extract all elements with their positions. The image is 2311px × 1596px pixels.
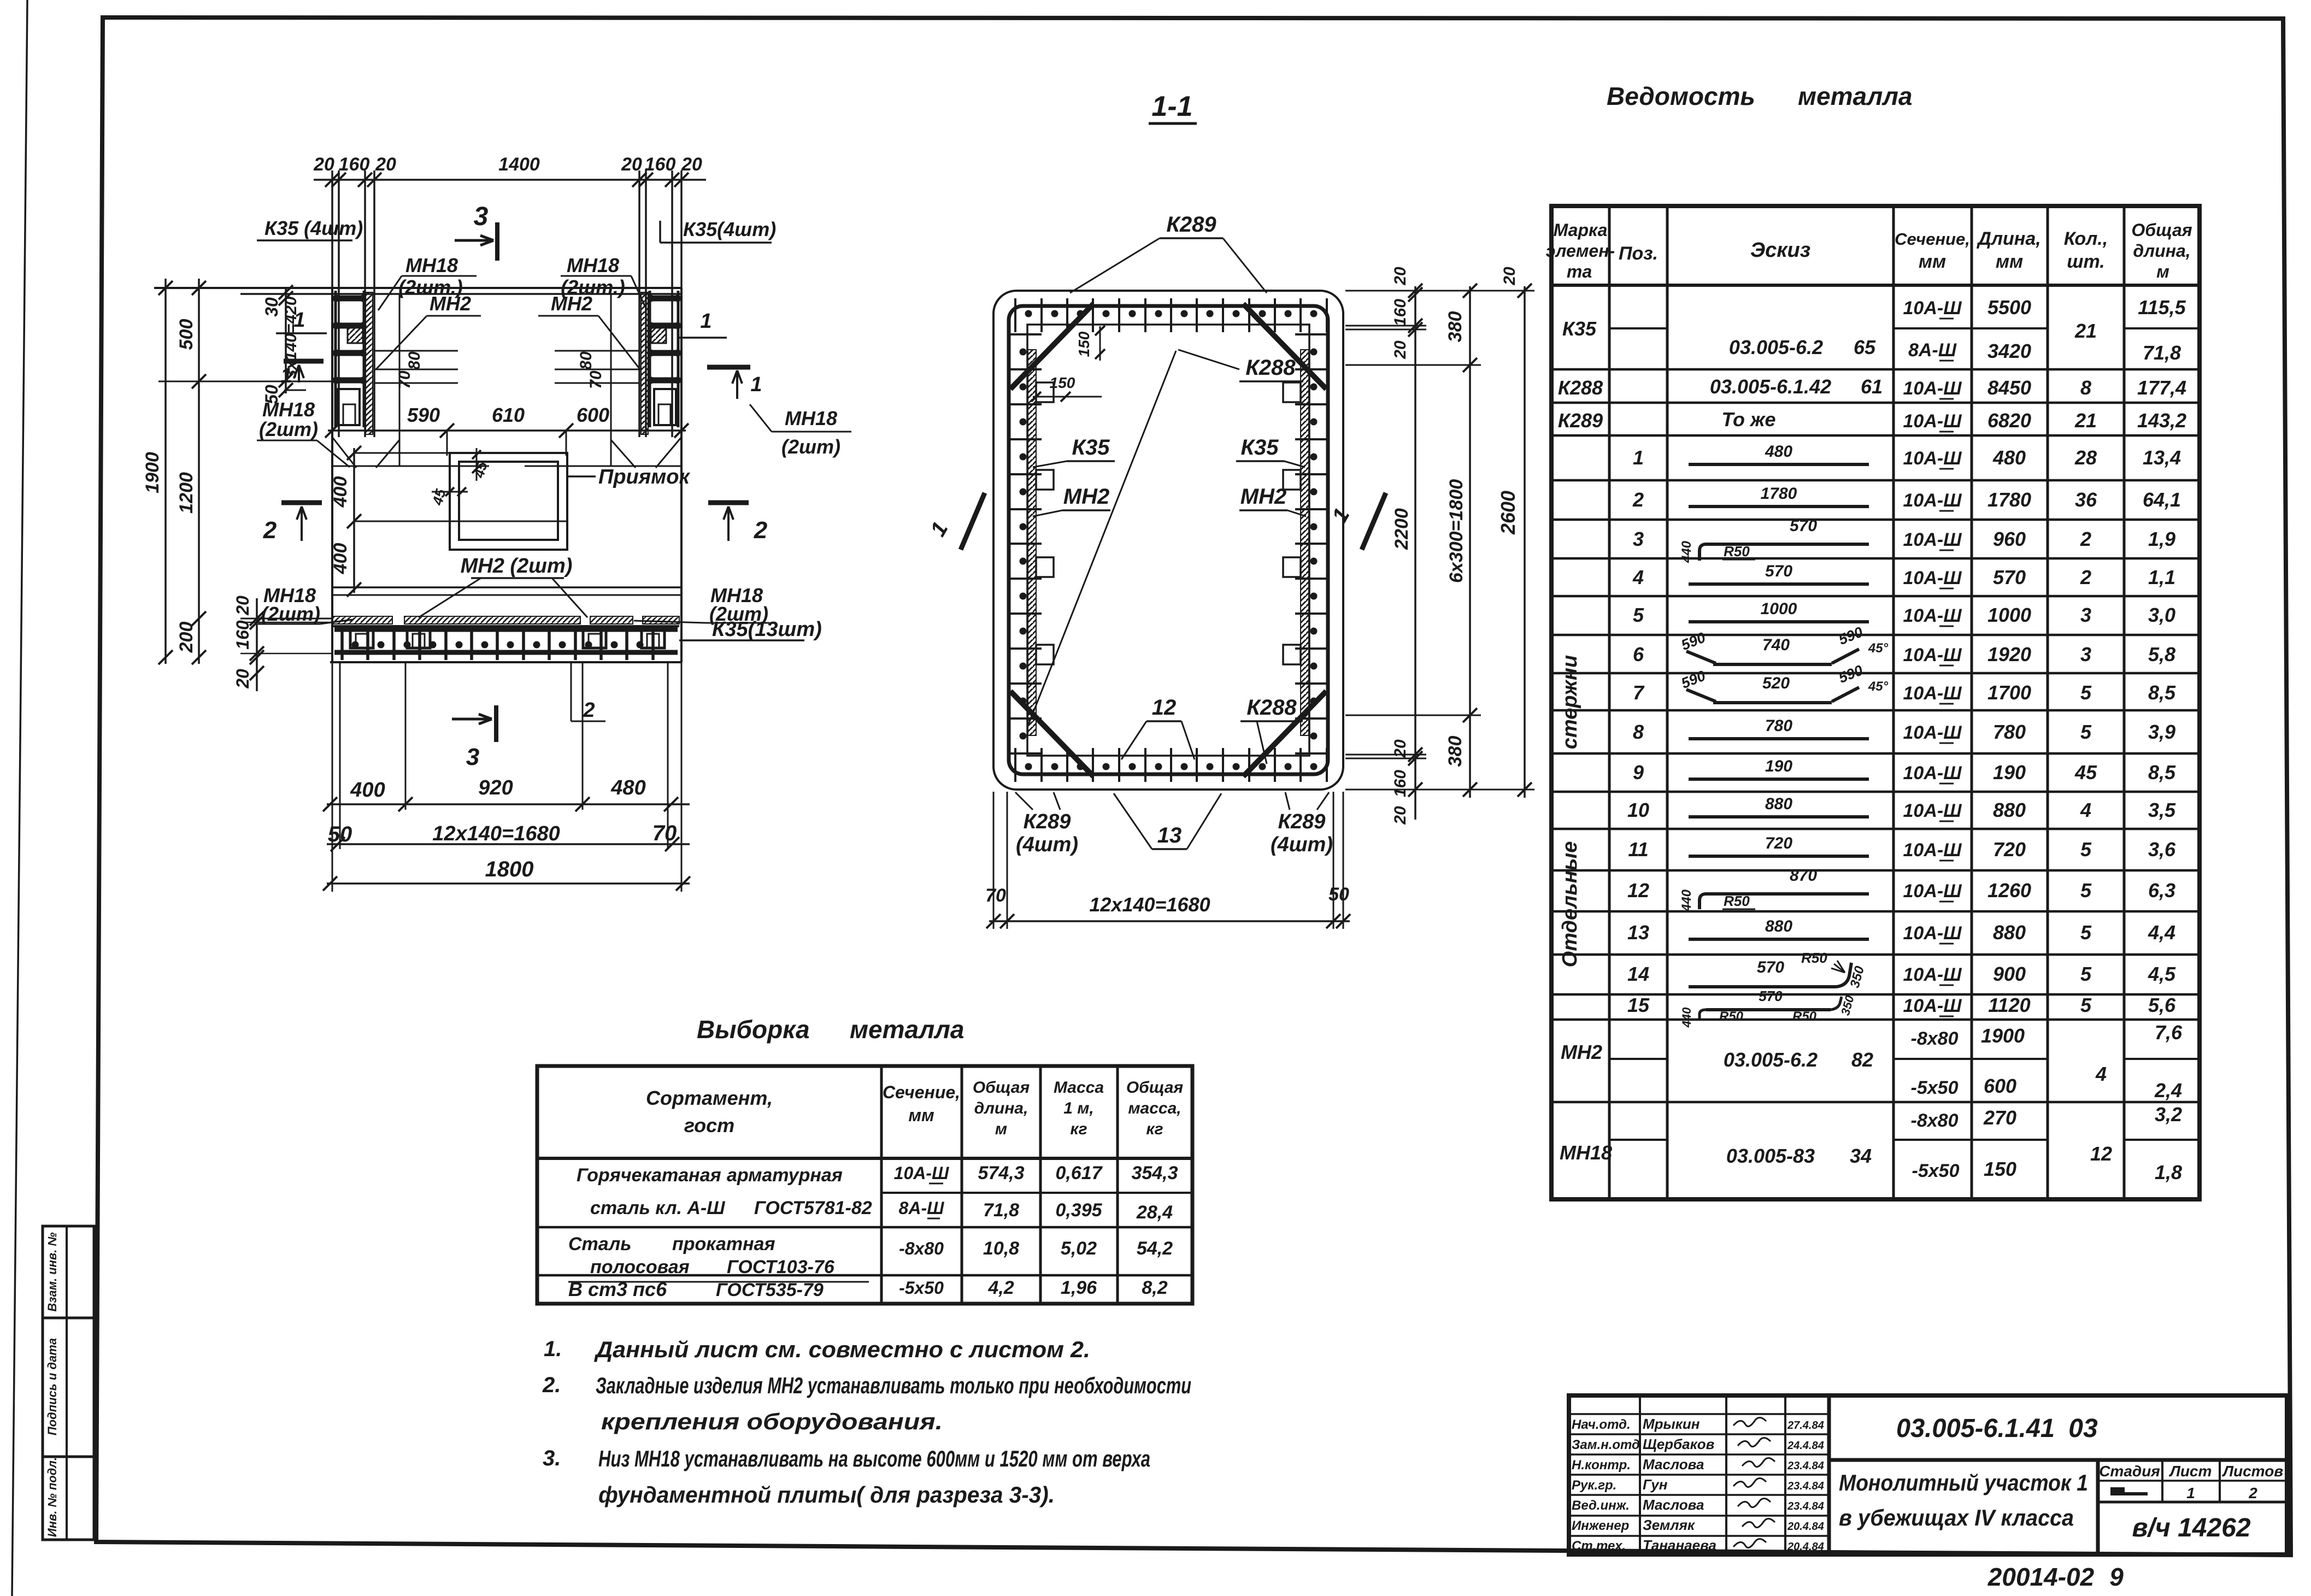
svg-text:574,3: 574,3: [978, 1163, 1024, 1183]
svg-text:12: 12: [1152, 696, 1177, 720]
svg-text:Сортамент,: Сортамент,: [646, 1087, 773, 1109]
plan: label MN18 (2 pcs) upper-right with leader: [561, 254, 645, 306]
svg-text:(2шт): (2шт): [781, 435, 840, 458]
svg-text:10А-Ш: 10А-Ш: [1903, 923, 1962, 944]
svg-text:15: 15: [1627, 994, 1650, 1016]
vedomost vertical label Otdelnye sterzhni: [1559, 655, 1581, 968]
svg-text:8,5: 8,5: [2148, 681, 2176, 704]
title block stage table: [2098, 1460, 2287, 1554]
svg-text:ГОСТ5781-82: ГОСТ5781-82: [754, 1198, 872, 1218]
svg-text:1,8: 1,8: [2155, 1161, 2182, 1183]
svg-text:R50: R50: [1792, 1009, 1817, 1024]
svg-text:Вед.инж.: Вед.инж.: [1572, 1498, 1630, 1513]
section: labels MN2 inside: [1033, 485, 1110, 516]
svg-text:3,5: 3,5: [2148, 799, 2176, 821]
svg-text:3,6: 3,6: [2148, 838, 2176, 861]
svg-text:5: 5: [2080, 921, 2092, 944]
svg-text:2: 2: [2080, 566, 2091, 588]
plan: section arrow 1 left: [280, 361, 324, 387]
svg-text:10,8: 10,8: [983, 1238, 1019, 1259]
svg-text:115,5: 115,5: [2138, 296, 2186, 319]
section: cut marks 1 left and right: [926, 493, 1386, 550]
svg-text:кг: кг: [1146, 1120, 1163, 1138]
svg-text:МН2: МН2: [1240, 485, 1286, 509]
svg-text:МН2: МН2: [1561, 1041, 1602, 1063]
svg-text:20: 20: [375, 154, 396, 175]
svg-text:Гун: Гун: [1643, 1476, 1668, 1493]
svg-text:1900: 1900: [1981, 1024, 2025, 1047]
svg-text:500: 500: [176, 319, 197, 350]
svg-text:10А-Ш: 10А-Ш: [1903, 964, 1962, 985]
svg-text:Листов: Листов: [2222, 1463, 2284, 1480]
svg-text:8: 8: [2080, 376, 2091, 399]
svg-text:20: 20: [233, 596, 252, 616]
svg-text:570: 570: [1759, 988, 1783, 1004]
vedomost row 12 (bent bar): [1627, 867, 2175, 912]
table title: Vyborka metalla: [697, 1015, 964, 1044]
svg-text:14: 14: [1627, 963, 1649, 985]
handwritten archive number: [1987, 1563, 2124, 1591]
svg-text:Инв. № подл.: Инв. № подл.: [45, 1457, 59, 1537]
section: concrete outline: [993, 291, 1343, 790]
vedomost row 4: [1632, 562, 2175, 588]
svg-text:9: 9: [2109, 1563, 2124, 1591]
svg-text:1: 1: [2186, 1485, 2195, 1501]
svg-text:177,4: 177,4: [2137, 376, 2186, 399]
svg-text:10А-Ш: 10А-Ш: [1903, 800, 1962, 821]
svg-text:4: 4: [1632, 566, 1644, 588]
svg-text:4,4: 4,4: [2148, 921, 2175, 944]
svg-text:28,4: 28,4: [1136, 1202, 1173, 1223]
svg-text:440: 440: [1679, 889, 1694, 912]
plan: pit (Priyamok) rectangle: [450, 453, 690, 550]
svg-text:570: 570: [1790, 517, 1817, 535]
svg-text:190: 190: [1993, 761, 2026, 784]
svg-text:480: 480: [610, 776, 645, 799]
section: bottom band ticks and dots: [1015, 748, 1327, 782]
svg-text:8: 8: [1633, 721, 1644, 743]
svg-text:1000: 1000: [1987, 604, 2031, 626]
svg-text:1: 1: [750, 373, 762, 396]
svg-text:10А-Ш: 10А-Ш: [1903, 763, 1962, 784]
svg-text:160: 160: [233, 620, 252, 650]
svg-text:6820: 6820: [1987, 409, 2031, 432]
svg-text:440: 440: [1680, 1007, 1693, 1028]
svg-text:МН18: МН18: [785, 407, 837, 429]
svg-text:5: 5: [2080, 721, 2092, 743]
svg-text:Низ МН18 устанавливать на: Низ МН18 устанавливать на высоте 600мм и…: [598, 1446, 1150, 1471]
svg-text:27.4.84: 27.4.84: [1787, 1420, 1824, 1432]
svg-text:5: 5: [2080, 838, 2092, 861]
svg-text:720: 720: [1765, 834, 1792, 852]
svg-text:Сталь: Сталь: [568, 1234, 631, 1255]
section: label 12 bottom with leaders: [1121, 696, 1195, 759]
svg-text:1,96: 1,96: [1061, 1277, 1097, 1298]
svg-text:К288: К288: [1558, 376, 1603, 399]
vedomost table grid: [1551, 206, 2200, 1199]
svg-text:2: 2: [754, 517, 768, 544]
svg-text:1: 1: [700, 310, 711, 333]
vyborka header: [646, 1079, 1183, 1138]
left margin stamp boxes: [43, 1226, 94, 1540]
svg-text:10: 10: [1627, 799, 1649, 821]
svg-text:1700: 1700: [1987, 681, 2031, 704]
svg-text:Данный лист см. совмес: Данный лист см. совместно с листом 2.: [594, 1336, 1090, 1362]
svg-text:10А-Ш: 10А-Ш: [1903, 881, 1962, 902]
section: right band ticks and dots: [1295, 334, 1329, 753]
vedomost row MN18: [1560, 1103, 2182, 1183]
svg-text:3.: 3.: [543, 1446, 561, 1470]
svg-text:МН18: МН18: [405, 254, 458, 276]
svg-text:1: 1: [293, 309, 305, 332]
svg-text:11: 11: [1628, 838, 1648, 861]
svg-text:арматурная: арматурная: [727, 1165, 843, 1186]
svg-text:20: 20: [1391, 340, 1409, 360]
svg-text:3420: 3420: [1987, 340, 2031, 362]
svg-text:4,5: 4,5: [2148, 963, 2176, 985]
svg-text:160: 160: [1391, 770, 1409, 797]
section: inner band edge: [1027, 325, 1309, 756]
svg-text:7: 7: [1633, 681, 1645, 704]
title block doc number: [1829, 1414, 2287, 1460]
title block signature table: [1569, 1395, 1829, 1554]
svg-text:-8х80: -8х80: [899, 1239, 944, 1258]
svg-text:металла: металла: [1798, 82, 1912, 110]
vedomost row K288: [1558, 375, 2186, 399]
section: section trace thin diagonals: [1028, 350, 1239, 725]
svg-text:(4шт): (4шт): [1016, 833, 1078, 856]
section: label K289 (4 pcs) bottom-left: [1015, 792, 1078, 856]
svg-text:143,2: 143,2: [2137, 409, 2186, 432]
svg-text:2: 2: [2248, 1485, 2257, 1501]
vedomost row 15 (bar with two hooks): [1627, 988, 2176, 1028]
svg-text:150: 150: [1075, 331, 1092, 357]
svg-text:5: 5: [2080, 681, 2092, 704]
svg-text:10А-Ш: 10А-Ш: [1903, 840, 1962, 861]
svg-text:Тананаева: Тананаева: [1643, 1537, 1716, 1553]
svg-text:880: 880: [1993, 799, 2026, 821]
svg-text:900: 900: [1993, 963, 2026, 985]
svg-text:1780: 1780: [1987, 488, 2031, 511]
svg-text:10А-Ш: 10А-Ш: [1903, 996, 1962, 1016]
svg-text:элемен-: элемен-: [1546, 241, 1615, 261]
svg-text:4: 4: [2080, 799, 2091, 821]
plan: label K35 (13 pcs): [679, 618, 822, 641]
svg-text:4: 4: [2095, 1063, 2107, 1085]
svg-text:Эскиз: Эскиз: [1750, 239, 1810, 262]
svg-text:Приямок: Приямок: [598, 466, 690, 488]
svg-text:590: 590: [407, 404, 440, 426]
svg-text:13: 13: [1627, 921, 1649, 944]
svg-text:-8х80: -8х80: [1911, 1028, 1959, 1049]
plan: pit 400/400 chain: [330, 446, 567, 597]
plan: left dimension chain 1900: [142, 279, 173, 664]
paper left edge line: [12, 0, 27, 1596]
plan: bottom-left chain 20/160/20 + 20: [233, 596, 332, 691]
plan: section mark 1 small right: [679, 310, 727, 338]
plan: slab side edges: [332, 288, 681, 662]
plan: foundation rebar band K35 13 pcs: [330, 626, 681, 662]
svg-text:(2шт): (2шт): [261, 603, 320, 625]
svg-text:5: 5: [2080, 994, 2092, 1016]
svg-text:10А-Ш: 10А-Ш: [1903, 529, 1962, 550]
svg-text:5,02: 5,02: [1061, 1238, 1097, 1259]
svg-text:400: 400: [330, 543, 351, 575]
plan: left wall panel (two vertical lines each side): [332, 170, 681, 437]
svg-text:0,395: 0,395: [1055, 1200, 1102, 1221]
svg-text:270: 270: [1983, 1106, 2016, 1129]
svg-text:960: 960: [1993, 528, 2026, 550]
svg-text:70: 70: [985, 885, 1006, 906]
svg-text:1260: 1260: [1987, 879, 2031, 902]
svg-text:Масса: Масса: [1054, 1079, 1104, 1097]
plan: section arrow 1 right: [707, 367, 762, 399]
section: corner diagonal bars: [1010, 304, 1326, 776]
plan: section arrow 2 right: [708, 503, 768, 544]
svg-text:20: 20: [1391, 267, 1409, 286]
svg-text:740: 740: [1762, 636, 1790, 654]
vedomost row 10: [1627, 795, 2176, 821]
svg-text:8,5: 8,5: [2148, 761, 2176, 784]
svg-text:МН18: МН18: [262, 398, 315, 421]
svg-text:Лист: Лист: [2169, 1463, 2212, 1480]
svg-text:-5х50: -5х50: [1912, 1161, 1960, 1181]
svg-text:Земляк: Земляк: [1643, 1517, 1696, 1533]
vedomost row 14 (bar with R50 hook right): [1627, 950, 2176, 990]
svg-text:03: 03: [2068, 1414, 2098, 1443]
svg-text:То же: То же: [1721, 408, 1775, 431]
svg-text:1-1: 1-1: [1151, 91, 1192, 122]
svg-text:71,8: 71,8: [2143, 341, 2181, 364]
svg-text:24.4.84: 24.4.84: [1787, 1440, 1824, 1452]
section: labels K35 inside: [1033, 435, 1115, 467]
svg-text:К35: К35: [1072, 435, 1110, 460]
section: label 13 with leaders: [1114, 793, 1221, 849]
plan view: top dimension line 20/160/20 1400 20/160/20: [313, 154, 706, 187]
svg-text:ГОСТ103-76: ГОСТ103-76: [727, 1257, 835, 1277]
svg-text:в убежищах IV класса: в убежищах IV класса: [1839, 1505, 2074, 1530]
svg-text:190: 190: [1765, 757, 1792, 775]
svg-text:Сечение,: Сечение,: [1895, 229, 1970, 249]
plan: right wall rebar cage K35: [641, 291, 681, 434]
svg-text:03.005-6.1.42: 03.005-6.1.42: [1710, 375, 1831, 398]
svg-text:МН18: МН18: [1560, 1141, 1612, 1164]
svg-text:3,2: 3,2: [2155, 1103, 2182, 1126]
svg-text:1200: 1200: [176, 472, 197, 514]
plan: mini chain 30 / 3x140=420 / 50: [262, 285, 306, 404]
section: right dim chain C 2600: [1497, 267, 1532, 798]
svg-text:мм: мм: [908, 1105, 934, 1125]
svg-text:Отдельные: Отдельные: [1559, 841, 1581, 968]
svg-text:720: 720: [1993, 838, 2026, 861]
svg-text:1000: 1000: [1761, 600, 1797, 618]
svg-text:34: 34: [1850, 1145, 1872, 1167]
plan: left dimension chain 500/1200/200: [158, 279, 332, 664]
svg-text:70: 70: [652, 821, 677, 845]
svg-text:150: 150: [1050, 374, 1075, 391]
section: label K288 upper: [1239, 356, 1303, 381]
svg-text:920: 920: [478, 776, 513, 799]
svg-text:полосовая: полосовая: [590, 1257, 690, 1277]
plan: label K35 (4 pcs) left: [257, 217, 363, 240]
svg-text:Марка: Марка: [1554, 220, 1608, 240]
svg-text:м: м: [2156, 262, 2169, 281]
svg-text:70: 70: [396, 370, 414, 389]
svg-text:1900: 1900: [142, 452, 163, 493]
svg-text:К35 (4шт): К35 (4шт): [264, 217, 363, 239]
plan: label MN2 right with leader: [538, 292, 640, 370]
svg-text:0,617: 0,617: [1055, 1163, 1103, 1183]
svg-text:520: 520: [1762, 674, 1790, 692]
svg-text:2: 2: [2080, 528, 2091, 550]
svg-text:10А-Ш: 10А-Ш: [1903, 645, 1962, 666]
svg-text:380: 380: [1445, 736, 1466, 767]
svg-text:870: 870: [1790, 867, 1817, 885]
svg-text:1920: 1920: [1987, 643, 2031, 666]
svg-text:10А-Ш: 10А-Ш: [1903, 722, 1962, 743]
plan: label MN2 left with leader: [375, 292, 481, 370]
svg-text:10А-Ш: 10А-Ш: [894, 1163, 949, 1183]
svg-text:3: 3: [1633, 528, 1644, 550]
plan: detail mark 2 with bent leader: [571, 662, 605, 722]
svg-text:20.4.84: 20.4.84: [1787, 1541, 1824, 1553]
vedomost row 6 (bar with 45deg hooks): [1633, 623, 2175, 666]
section: label K289 (4 pcs) bottom-right: [1271, 792, 1333, 856]
plan: foundation hatched top band: [333, 616, 679, 624]
plan: section mark 1 small left: [276, 309, 327, 333]
svg-text:354,3: 354,3: [1131, 1163, 1178, 1183]
plan: left wall rebar cage K35: [333, 291, 373, 434]
svg-text:610: 610: [492, 404, 525, 426]
plan: mini dims 70 80 left: [374, 351, 458, 389]
svg-text:Инженер: Инженер: [1572, 1518, 1629, 1533]
svg-text:20: 20: [1391, 806, 1409, 825]
svg-text:3: 3: [474, 202, 489, 231]
svg-text:Горячекатаная: Горячекатаная: [577, 1165, 721, 1186]
svg-text:длина,: длина,: [974, 1099, 1028, 1117]
svg-text:23.4.84: 23.4.84: [1787, 1500, 1824, 1512]
svg-text:880: 880: [1993, 921, 2026, 944]
section: dim 150 horizontal: [1031, 374, 1102, 402]
svg-text:Маслова: Маслова: [1643, 1456, 1704, 1473]
svg-text:61: 61: [1861, 375, 1883, 398]
svg-text:2: 2: [263, 517, 277, 544]
svg-text:200: 200: [176, 622, 197, 653]
svg-text:К35: К35: [1562, 317, 1597, 340]
svg-text:(2шт): (2шт): [259, 418, 318, 440]
svg-text:1: 1: [280, 364, 292, 387]
section: main rebar loop: [1009, 306, 1328, 774]
svg-text:(4шт): (4шт): [1271, 833, 1333, 856]
svg-text:Выборка: Выборка: [697, 1015, 810, 1044]
svg-text:780: 780: [1765, 717, 1792, 735]
svg-text:масса,: масса,: [1128, 1099, 1181, 1117]
svg-text:К35(13шт): К35(13шт): [712, 618, 822, 641]
plan: bottom dim line 50 / 12x140=1680 / 70: [327, 821, 690, 851]
svg-text:-5х50: -5х50: [899, 1278, 944, 1298]
plan: section arrow 2 left: [263, 503, 322, 544]
svg-text:440: 440: [1679, 540, 1694, 563]
svg-text:45°: 45°: [1868, 679, 1889, 694]
svg-text:20: 20: [313, 154, 334, 175]
svg-text:12х140=1680: 12х140=1680: [1089, 893, 1210, 916]
plan: label MN18 (2 pcs) foundation-left: [258, 584, 352, 625]
svg-text:та: та: [1567, 262, 1592, 281]
plan: bottom dim line 1800: [323, 857, 690, 891]
svg-text:480: 480: [1992, 446, 2026, 469]
svg-text:3: 3: [2080, 643, 2091, 666]
svg-text:Нач.отд.: Нач.отд.: [1572, 1417, 1631, 1432]
svg-text:-5х50: -5х50: [1911, 1077, 1959, 1098]
svg-text:металла: металла: [850, 1015, 964, 1044]
svg-text:20.4.84: 20.4.84: [1787, 1521, 1824, 1533]
title block name: [1839, 1470, 2088, 1530]
svg-text:380: 380: [1445, 311, 1466, 343]
svg-text:400: 400: [350, 779, 385, 802]
svg-text:600: 600: [577, 404, 609, 426]
svg-text:150: 150: [1984, 1158, 2016, 1180]
svg-text:МН2 (2шт): МН2 (2шт): [461, 555, 573, 578]
svg-text:9: 9: [1633, 761, 1644, 784]
svg-text:Поз.: Поз.: [1619, 243, 1658, 264]
vedomost row 8: [1633, 717, 2175, 743]
svg-text:Закладные изделия МН2 устан: Закладные изделия МН2 устанавливать толь…: [596, 1373, 1191, 1398]
svg-text:R50: R50: [1724, 893, 1750, 909]
svg-text:Ст.тех.: Ст.тех.: [1572, 1539, 1626, 1553]
svg-text:480: 480: [1765, 443, 1792, 461]
svg-text:6х300=1800: 6х300=1800: [1446, 479, 1467, 583]
svg-text:54,2: 54,2: [1137, 1238, 1173, 1259]
svg-text:600: 600: [1984, 1075, 2016, 1097]
svg-text:71,8: 71,8: [983, 1200, 1019, 1221]
svg-text:1780: 1780: [1761, 485, 1797, 503]
svg-text:10А-Ш: 10А-Ш: [1903, 411, 1962, 432]
section: dim 150 vertical: [1075, 326, 1105, 361]
view title 1-1: [1149, 91, 1197, 123]
svg-text:10А-Ш: 10А-Ш: [1903, 568, 1962, 588]
svg-text:К289: К289: [1278, 810, 1326, 833]
svg-text:5,6: 5,6: [2148, 994, 2176, 1016]
vedomost row 13: [1627, 917, 2175, 944]
vedomost row 3 (bent bar): [1633, 517, 2175, 563]
plan: extension verticals below foundation: [332, 662, 681, 892]
svg-text:К288: К288: [1246, 696, 1297, 720]
svg-text:880: 880: [1765, 795, 1792, 813]
vedomost row 9: [1633, 757, 2176, 784]
svg-text:03.005-6.2: 03.005-6.2: [1724, 1049, 1818, 1071]
svg-text:10А-Ш: 10А-Ш: [1903, 378, 1962, 399]
svg-text:Длина,: Длина,: [1976, 228, 2040, 249]
svg-text:м: м: [995, 1120, 1007, 1138]
svg-text:780: 780: [1993, 721, 2026, 743]
svg-text:70: 70: [587, 370, 605, 389]
svg-text:1400: 1400: [498, 154, 540, 175]
title block frame: [1569, 1395, 2287, 1554]
svg-text:R50: R50: [1801, 950, 1827, 966]
svg-text:Зам.н.отд: Зам.н.отд: [1572, 1438, 1640, 1452]
svg-text:1,9: 1,9: [2148, 528, 2175, 550]
svg-text:570: 570: [1993, 566, 2026, 588]
svg-text:30: 30: [262, 297, 281, 317]
svg-text:МН2: МН2: [1063, 485, 1109, 509]
svg-text:20: 20: [233, 669, 252, 689]
svg-text:12х140=1680: 12х140=1680: [432, 822, 560, 845]
svg-text:2200: 2200: [1391, 508, 1412, 550]
svg-text:1800: 1800: [485, 857, 534, 881]
svg-text:-8х80: -8х80: [1911, 1110, 1959, 1131]
plan: bottom dim line 400/920/480: [323, 776, 690, 811]
svg-text:К35: К35: [1240, 435, 1279, 460]
